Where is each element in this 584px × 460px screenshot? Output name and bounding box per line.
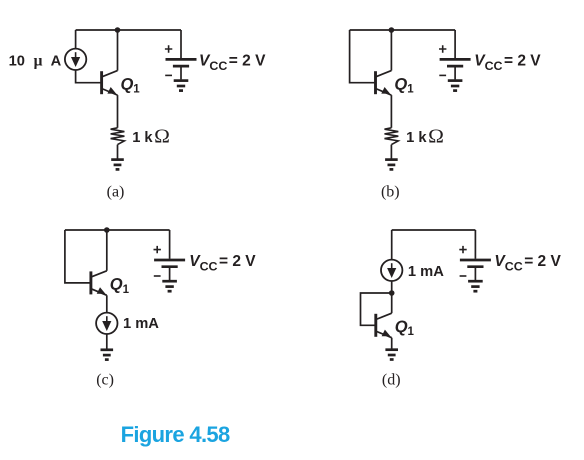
transistor Q1 (d) <box>376 313 392 338</box>
wire: (b) base feedback loop <box>350 30 376 83</box>
resistor R 1k (b) <box>385 128 399 145</box>
svg-text:CC: CC <box>485 59 503 73</box>
wire: (d) top rail <box>392 229 476 231</box>
svg-text:CC: CC <box>209 59 227 73</box>
wire: (c) base feedback loop <box>65 230 91 283</box>
svg-text:1 k: 1 k <box>132 130 153 146</box>
svg-text:Q: Q <box>394 75 407 93</box>
node: (c) collector-base junction dot <box>104 227 110 233</box>
ground: (b) below resistor <box>385 160 398 170</box>
svg-text:Q: Q <box>110 276 123 294</box>
battery VCC (a) <box>166 30 197 91</box>
battery VCC (c) <box>154 230 185 291</box>
transistor Q1 (b) <box>376 71 392 96</box>
svg-text:μ: μ <box>34 53 43 70</box>
wire: (b) top rail <box>350 29 456 31</box>
svg-text:(b): (b) <box>381 183 400 200</box>
svg-text:(a): (a) <box>107 183 125 200</box>
wire: (a) current source bottom lead to base <box>76 70 102 83</box>
transistor Q1 (c) <box>91 271 107 296</box>
transistor Q1 (a) <box>102 71 118 96</box>
wire: (d) emitter to ground <box>391 338 393 350</box>
svg-text:= 2 V: = 2 V <box>219 253 256 270</box>
svg-text:1: 1 <box>133 84 140 96</box>
wire: (a) top rail <box>76 29 181 31</box>
svg-text:= 2 V: = 2 V <box>524 253 561 270</box>
svg-text:(c): (c) <box>96 372 114 389</box>
wire: (d) current source to collector node <box>391 281 393 293</box>
battery polarity (c) <box>154 246 161 276</box>
svg-text:1 mA: 1 mA <box>408 264 444 280</box>
wire: (d) collector to node <box>391 293 393 313</box>
battery VCC (d) <box>460 230 491 291</box>
wire: (b) emitter to resistor <box>390 95 392 128</box>
svg-text:CC: CC <box>505 259 523 273</box>
ground: (d) below emitter <box>385 350 398 360</box>
wire: (b) collector to rail <box>390 30 392 71</box>
wire: (c) current source to ground <box>106 334 108 350</box>
current source I1 1mA (c) <box>96 313 117 334</box>
node: (b) collector-base junction dot <box>389 27 395 33</box>
svg-text:Figure 4.58: Figure 4.58 <box>121 422 230 447</box>
battery polarity (b) <box>439 45 446 75</box>
svg-text:= 2 V: = 2 V <box>504 53 541 70</box>
wire: (d) current source top lead <box>391 230 393 260</box>
wire: (c) collector to rail <box>106 230 108 271</box>
svg-text:= 2 V: = 2 V <box>229 53 266 70</box>
wire: (a) resistor to ground <box>117 145 119 160</box>
battery polarity (a) <box>165 45 172 75</box>
wire: (a) current source top lead <box>75 30 77 49</box>
svg-text:1: 1 <box>123 284 130 296</box>
wire: (c) emitter to current source <box>106 295 108 313</box>
wire: (a) emitter to resistor <box>117 95 119 128</box>
svg-text:1: 1 <box>408 326 415 338</box>
wire: (c) top rail <box>65 229 170 231</box>
current source I1 10uA (a) <box>65 49 86 70</box>
svg-text:Ω: Ω <box>428 126 444 147</box>
svg-text:1: 1 <box>407 84 414 96</box>
svg-text:A: A <box>51 54 62 70</box>
wire: (d) base feedback loop <box>361 293 392 325</box>
current source I1 1mA (d) <box>381 260 402 281</box>
battery polarity (d) <box>459 246 466 276</box>
svg-text:1 mA: 1 mA <box>123 316 159 332</box>
svg-text:(d): (d) <box>382 372 401 389</box>
battery VCC (b) <box>440 30 471 91</box>
node: (d) collector-base junction dot <box>389 290 395 296</box>
wire: (b) resistor to ground <box>390 145 392 160</box>
ground: (c) below current source <box>101 350 114 360</box>
svg-text:Q: Q <box>121 75 134 93</box>
resistor R 1k (a) <box>111 128 125 145</box>
svg-text:Q: Q <box>395 318 408 336</box>
node: (a) collector junction dot <box>115 27 121 33</box>
svg-text:Ω: Ω <box>154 126 170 147</box>
svg-text:10: 10 <box>9 54 25 70</box>
ground: (a) below resistor <box>111 160 124 170</box>
svg-text:1 k: 1 k <box>406 130 427 146</box>
wire: (a) collector to rail <box>117 30 119 71</box>
svg-text:CC: CC <box>200 259 218 273</box>
